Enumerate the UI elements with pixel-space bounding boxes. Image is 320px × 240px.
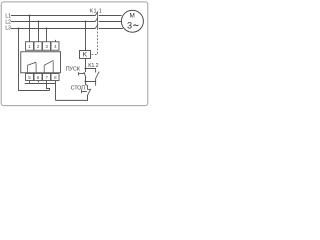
wire terminal 5 stub (29, 81, 31, 84)
relay U1 body (21, 52, 61, 73)
wire L3 left drop to bottom rail (19, 29, 50, 91)
contactor K1.1 pole 3 (95, 25, 123, 29)
terminal 5 box (26, 74, 34, 81)
node B junction dot (85, 81, 87, 83)
wire L3 line (11, 28, 95, 30)
frame border (1, 2, 148, 106)
motor M1 circle (121, 10, 143, 32)
wire node B to STOP top (86, 82, 88, 90)
wire stub below K1.2 bottom corner (95, 82, 97, 86)
terminal 4 box (51, 42, 59, 51)
svg-text:L3: L3 (5, 26, 11, 32)
wire K1.2 branch bottom (86, 78, 96, 81)
node A junction dot (85, 68, 87, 70)
svg-text:K: K (83, 52, 88, 59)
relay internal contact left (28, 62, 36, 73)
auxiliary contact K1.2 blade (96, 72, 99, 79)
node L1-T1 junction dot (29, 15, 31, 17)
terminal 3 box (43, 42, 51, 51)
svg-text:K1.1: K1.1 (90, 8, 103, 14)
pushbutton PUSK (start, NO) (79, 72, 86, 78)
terminal 7 box (43, 74, 51, 81)
svg-text:K1.2: K1.2 (88, 63, 99, 69)
terminal 1 box (26, 42, 34, 51)
svg-text:ПУСК: ПУСК (66, 66, 81, 72)
wire terminal bus rail (25, 83, 56, 85)
wire bottom run to stop button (56, 95, 88, 101)
wire L1 tap to terminal 1 (29, 16, 31, 42)
wire L2 tap to coil K (85, 22, 87, 51)
wire terminal 6 tick (38, 81, 40, 83)
wire terminal 8 drop (55, 81, 57, 101)
wire K1.2 branch top (86, 69, 96, 73)
wire L2 tap to terminal 2 (38, 22, 40, 42)
contactor K1.1 pole 1 (95, 12, 122, 16)
background (0, 0, 150, 108)
svg-text:M: M (130, 13, 135, 20)
node L2-coil junction dot (85, 21, 87, 23)
coil K box (80, 51, 91, 59)
wire coil K to node A (85, 59, 87, 69)
wire node A to PUSK top (85, 69, 87, 73)
terminal 8 box (51, 74, 59, 81)
wire PUSK bottom to node B (85, 76, 87, 81)
contactor K1.1 linkage dashed line (91, 12, 98, 54)
node L3-T3 junction dot (46, 28, 48, 30)
wire terminal 7 stub (46, 81, 48, 84)
wire L2 line (11, 21, 95, 23)
terminal 2 box (34, 42, 42, 51)
wire L3 tap to terminal 3 (46, 29, 48, 42)
wire L1 line (11, 15, 95, 17)
terminal 6 box (34, 74, 42, 81)
pushbutton STOP (NC) (82, 89, 91, 101)
node L2-T2 junction dot (38, 21, 40, 23)
relay internal contact right (44, 60, 53, 72)
node L3-left-drop junction dot (18, 28, 20, 30)
contactor K1.1 pole 2 (95, 18, 122, 22)
motor M1 tilde (133, 25, 138, 26)
svg-text:3: 3 (127, 21, 132, 31)
wire jog up to terminal 7 (47, 84, 50, 91)
wire terminal 4 tick (55, 40, 57, 42)
svg-text:СТОП: СТОП (71, 85, 86, 91)
